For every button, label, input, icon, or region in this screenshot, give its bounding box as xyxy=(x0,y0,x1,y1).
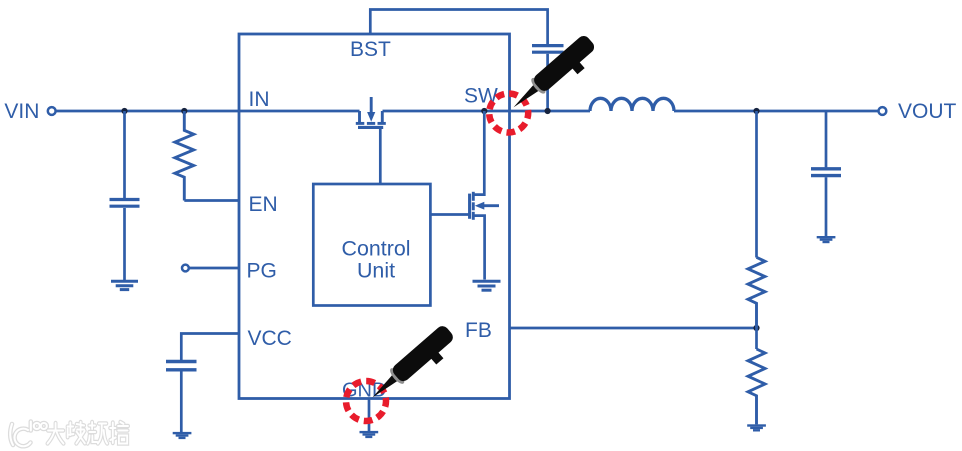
capacitor VCC xyxy=(166,362,197,433)
svg-text:VIN: VIN xyxy=(4,100,39,123)
junction FB node xyxy=(753,325,759,331)
svg-text:Control: Control xyxy=(342,237,411,261)
wire divider top xyxy=(755,111,758,258)
ground (GND pin) xyxy=(360,431,379,438)
resistor R2 xyxy=(748,349,765,424)
svg-text:VCC: VCC xyxy=(248,327,292,350)
svg-text:VOUT: VOUT xyxy=(898,100,957,123)
ground (output cap) xyxy=(817,236,836,243)
wire Q2 drain xyxy=(474,111,485,195)
transistor Q2 (low-side MOSFET) xyxy=(470,192,499,220)
VOUT terminal xyxy=(879,107,887,115)
ground (divider) xyxy=(747,424,766,431)
resistor R_EN xyxy=(175,111,194,201)
resistor R1 xyxy=(748,257,765,328)
wire Q2 gate from control unit xyxy=(430,213,469,216)
wire: rail to VOUT xyxy=(674,110,878,113)
ground (input cap) xyxy=(111,281,138,289)
wire Q1 gate to control unit xyxy=(379,129,382,184)
labels xyxy=(4,100,956,123)
wire EN xyxy=(184,199,239,202)
oscilloscope probe at SW xyxy=(507,33,602,120)
oscilloscope probe at GND xyxy=(366,323,461,410)
inductor L1 xyxy=(590,98,674,111)
wire VCC xyxy=(181,334,239,361)
junction VOUT divider xyxy=(753,108,759,114)
node GND probe circle xyxy=(346,381,386,421)
watermark logo and text xyxy=(10,422,128,447)
Q1 gate arrowhead xyxy=(367,112,375,122)
svg-text:PG: PG xyxy=(247,260,277,283)
junction Q2 drain xyxy=(481,108,487,114)
junction EN resistor xyxy=(181,108,187,114)
wire Q2 source xyxy=(473,216,484,280)
capacitor C_in xyxy=(110,111,140,280)
transistor Q1 (high-side MOSFET) xyxy=(356,97,386,127)
junction BST-SW xyxy=(545,108,551,114)
svg-text:BST: BST xyxy=(350,38,391,61)
wire FB xyxy=(510,327,757,330)
wire: VIN rail left xyxy=(56,110,360,113)
Q2 body arrowhead xyxy=(475,202,485,210)
capacitor C_out xyxy=(811,111,841,236)
wire GND pin xyxy=(368,399,371,432)
IC box xyxy=(239,34,510,399)
wire: SW rail inside IC xyxy=(383,110,591,113)
svg-text:IN: IN xyxy=(249,88,270,111)
junction input cap xyxy=(121,108,127,114)
wire FB node to R2 xyxy=(755,328,758,349)
control unit U1 box xyxy=(313,184,430,306)
wire PG xyxy=(189,267,239,270)
svg-text:FB: FB xyxy=(465,319,492,342)
PG terminal xyxy=(182,265,189,272)
node SW probe circle xyxy=(489,94,528,133)
svg-text:Unit: Unit xyxy=(357,259,395,283)
svg-text:EN: EN xyxy=(249,193,278,216)
VIN terminal xyxy=(48,107,56,115)
capacitor BST xyxy=(532,46,564,111)
ground (Q2 source) xyxy=(473,281,501,290)
BST wire loop xyxy=(370,10,547,45)
ground (VCC cap) xyxy=(173,432,192,439)
